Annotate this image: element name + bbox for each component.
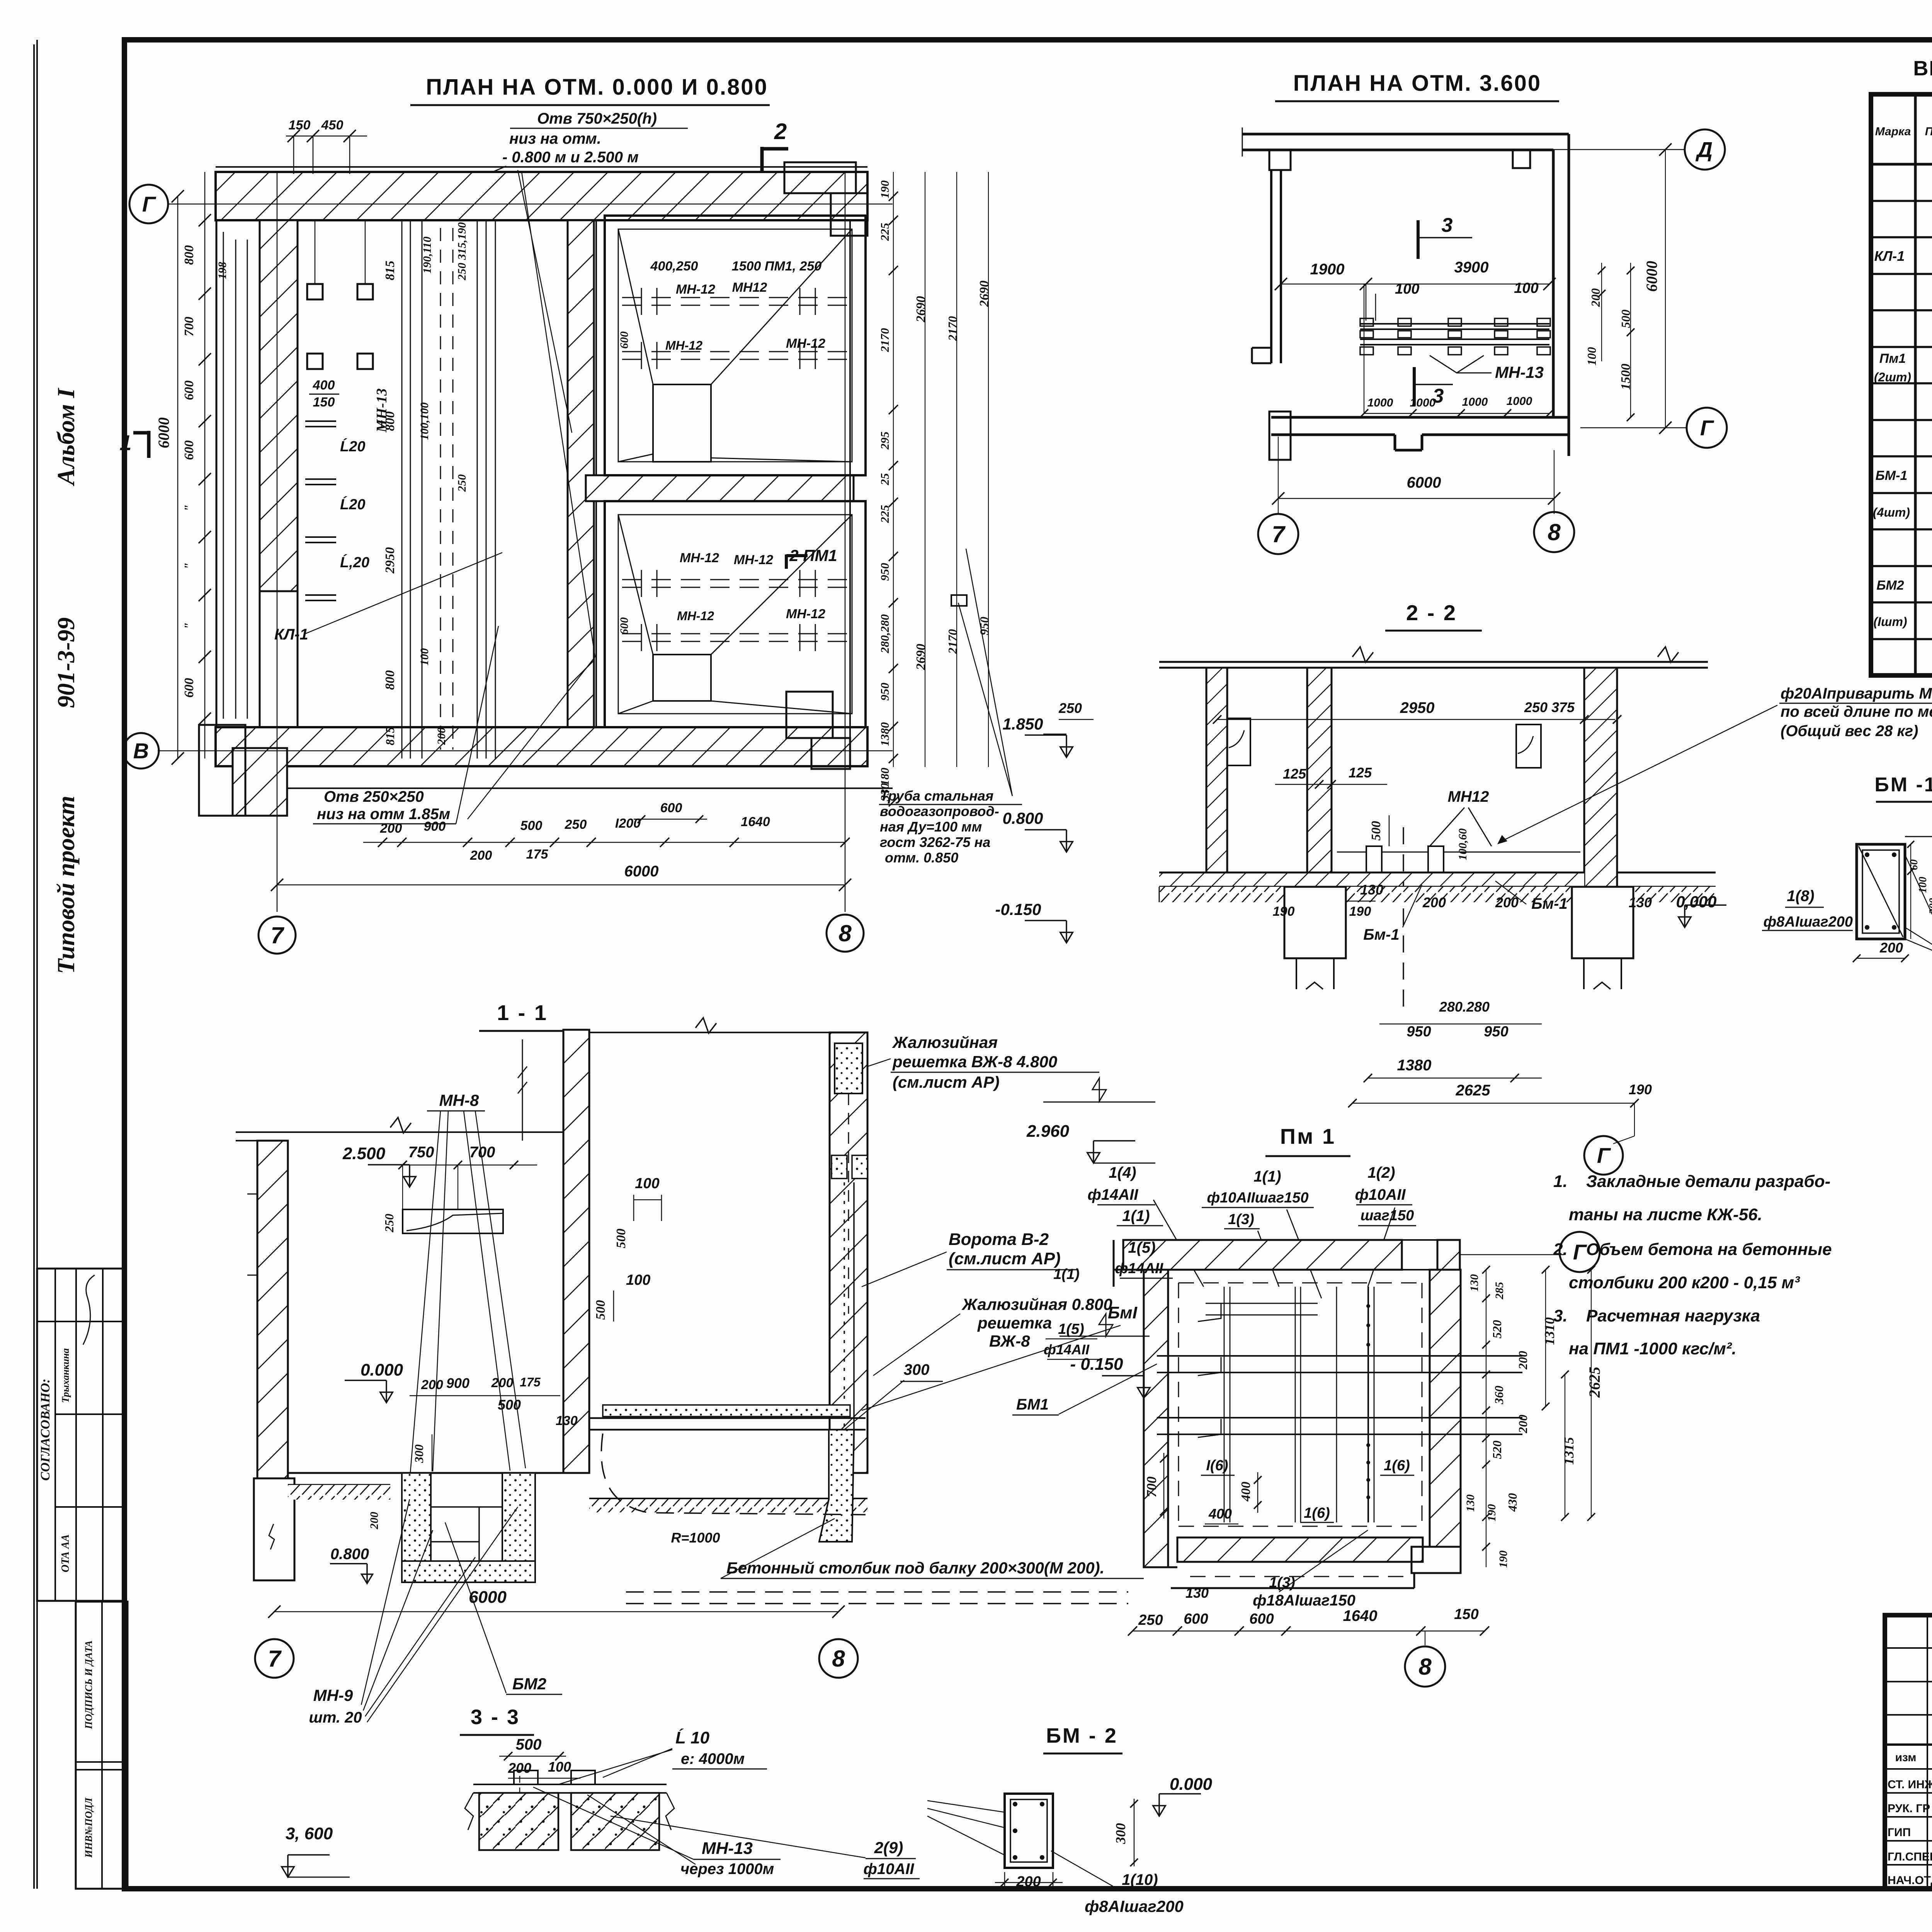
svg-text:2: 2 [774,119,787,144]
sidebar column lines [36,40,38,1889]
svg-text:3, 600: 3, 600 [286,1824,333,1843]
svg-text:ная Ду=100 мм: ная Ду=100 мм [880,819,982,835]
svg-text:е: 4000м: е: 4000м [681,1750,745,1767]
bottom wall [1271,416,1569,419]
svg-text:ф10АII: ф10АII [864,1861,915,1878]
2-2 floor slab [1159,872,1584,887]
svg-text:ф8АIшаг200: ф8АIшаг200 [1764,914,1853,930]
svg-text:(см.лист АР): (см.лист АР) [893,1073,1000,1091]
svg-text:МН-12: МН-12 [677,609,714,623]
svg-text:100: 100 [548,1759,571,1775]
svg-text:950: 950 [1484,1024,1508,1040]
svg-text:600: 600 [1249,1611,1274,1627]
svg-text:225: 225 [878,223,891,241]
svg-text:ГИП: ГИП [1888,1826,1911,1839]
svg-text:1(3): 1(3) [1269,1575,1295,1591]
svg-text:Отв 250×250: Отв 250×250 [324,788,424,805]
svg-text:500: 500 [614,1229,628,1248]
svg-text:водогазопровод-: водогазопровод- [880,803,999,819]
svg-text:низ на отм.: низ на отм. [509,130,601,147]
2-2 left wall [1206,668,1227,885]
svg-text:2625: 2625 [1456,1082,1491,1099]
svg-text:500: 500 [520,818,543,833]
svg-text:ПОДПИСЬ И ДАТА: ПОДПИСЬ И ДАТА [83,1640,94,1729]
svg-text:400: 400 [313,378,335,393]
svg-text:Ĺ20: Ĺ20 [340,496,365,513]
ground at right [589,1498,867,1512]
svg-text:Отв 750×250(h): Отв 750×250(h) [537,110,657,127]
svg-text:7: 7 [268,1646,282,1672]
1-1 right tall wall with louver [830,1032,867,1473]
svg-text:100,100: 100,100 [418,402,431,440]
sidebar soglasovano table [37,1269,124,1601]
svg-text:2690: 2690 [914,296,928,323]
svg-text:100: 100 [1514,280,1538,296]
svg-text:1000: 1000 [1462,396,1488,408]
plan walls [216,172,867,220]
svg-text:1(2): 1(2) [1367,1164,1395,1181]
1-1 floor slab left room [288,1472,563,1474]
svg-text:400: 400 [1208,1506,1232,1522]
svg-text:ПОЗ.: ПОЗ. [1925,125,1932,138]
svg-text:300: 300 [904,1361,930,1378]
svg-text:ГЛ.СПЕЦ: ГЛ.СПЕЦ [1888,1850,1932,1863]
svg-text:МН12: МН12 [1448,788,1489,805]
svg-text:": " [182,505,196,512]
svg-text:Типовой проект: Типовой проект [52,796,80,974]
svg-text:Объем бетона на бетонные: Объем бетона на бетонные [1586,1240,1832,1259]
svg-text:0,000: 0,000 [1676,893,1716,911]
svg-text:8: 8 [1548,519,1561,545]
svg-text:(Общий вес 28 кг): (Общий вес 28 кг) [1781,723,1918,740]
dims 3.600 [1281,284,1549,285]
svg-text:150: 150 [1454,1606,1478,1622]
top inner notch [1513,150,1530,168]
gate dashed line [844,1182,845,1449]
svg-text:200: 200 [1588,288,1602,307]
bottom dims [363,842,845,843]
KL-1 small steps [305,420,336,422]
svg-text:25: 25 [878,473,891,486]
2-2 ground hatch [1159,887,1284,902]
svg-text:190,110: 190,110 [421,236,434,274]
svg-text:950: 950 [878,683,891,701]
svg-text:ф18АIшаг150: ф18АIшаг150 [1253,1592,1355,1609]
svg-text:I200: I200 [615,816,641,831]
svg-text:изм: изм [1895,1751,1917,1764]
svg-text:520: 520 [1490,1440,1504,1459]
svg-text:250: 250 [565,817,587,832]
svg-text:400: 400 [1239,1482,1253,1502]
3-3 slabs [473,1784,667,1785]
svg-text:МН-12: МН-12 [680,551,719,565]
svg-text:6000: 6000 [1407,474,1441,491]
axis D [1542,149,1685,150]
svg-text:7: 7 [270,922,284,948]
svg-text:-0.150: -0.150 [995,900,1041,918]
svg-text:0.800: 0.800 [1002,809,1043,827]
2-2 axis G circle [1613,1136,1634,1144]
svg-text:- 0.150: - 0.150 [1070,1355,1124,1374]
svg-text:МН-8: МН-8 [439,1091,479,1109]
2-2 beams (BM-1) [1366,846,1382,872]
svg-text:295: 295 [878,432,891,450]
svg-text:2(9): 2(9) [874,1838,903,1857]
svg-text:200: 200 [435,728,448,745]
svg-text:": " [182,563,196,570]
svg-text:МН-12: МН-12 [665,338,702,352]
2-2 right wall [1584,668,1617,897]
svg-text:250 315,190: 250 315,190 [456,222,468,281]
svg-text:БМ1: БМ1 [1016,1396,1049,1413]
svg-text:1315: 1315 [1561,1437,1577,1465]
svg-text:1640: 1640 [741,815,770,829]
svg-text:750: 750 [408,1144,434,1161]
axis circle 8 [827,915,864,952]
svg-text:через 1000м: через 1000м [680,1861,774,1878]
svg-text:1(1): 1(1) [1053,1266,1080,1282]
svg-text:180: 180 [878,768,891,786]
svg-text:130: 130 [1464,1495,1477,1512]
svg-text:1: 1 [119,430,131,455]
svg-text:Марка: Марка [1875,125,1911,138]
svg-text:2690: 2690 [977,281,992,307]
svg-text:2950: 2950 [1400,699,1435,716]
svg-text:1(4): 1(4) [1109,1164,1136,1181]
plan 3.600 walls [1242,133,1569,136]
svg-text:2690: 2690 [914,644,928,670]
svg-text:Альбом I: Альбом I [52,388,80,486]
svg-text:200: 200 [1516,1351,1530,1370]
svg-text:2170: 2170 [946,316,959,341]
1-1 middle tall wall [563,1030,589,1473]
PM1 inner dashed perimeter [1179,1282,1422,1284]
svg-text:ИНВ№ПОДЛ: ИНВ№ПОДЛ [83,1797,94,1858]
dashed diagonal leader big [518,170,572,433]
svg-text:500: 500 [516,1736,542,1753]
svg-text:8: 8 [838,920,852,946]
dashed R=1000 curve [601,1434,866,1515]
svg-text:125: 125 [1283,766,1306,782]
lower tank [605,501,866,727]
svg-text:700: 700 [182,317,196,337]
svg-text:Ĺ 10: Ĺ 10 [675,1728,710,1747]
svg-text:1000: 1000 [1367,396,1393,409]
svg-text:600: 600 [182,440,196,460]
svg-text:1(5): 1(5) [1058,1321,1084,1337]
table1 grid [1871,94,1932,675]
svg-text:МН-13: МН-13 [1495,363,1544,381]
svg-text:Г: Г [1573,1240,1587,1264]
svg-text:БмI: БмI [1108,1303,1138,1322]
bottom-right blocks [786,692,833,738]
svg-text:1900: 1900 [1310,261,1345,278]
svg-text:3: 3 [1442,214,1453,236]
svg-text:1(6): 1(6) [1304,1505,1330,1521]
svg-text:1(10): 1(10) [1122,1871,1158,1888]
PM1 right dim chains [1486,1270,1486,1567]
svg-text:ВЖ-8: ВЖ-8 [989,1332,1030,1350]
svg-text:2950: 2950 [383,547,397,574]
svg-text:900: 900 [446,1375,469,1391]
svg-text:280,280: 280,280 [878,614,891,654]
svg-text:100: 100 [1585,347,1599,366]
svg-text:БМ -1: БМ -1 [1874,774,1932,796]
svg-text:РУК. ГР: РУК. ГР [1888,1802,1930,1815]
title block outer [1885,1615,1932,1889]
2-2 dashed anchor [1403,827,1404,1012]
concrete post right [819,1430,854,1542]
PM1 G circle and axis [1461,1254,1564,1255]
svg-text:отм. 0.850: отм. 0.850 [885,850,958,866]
svg-text:3900: 3900 [1454,259,1489,276]
svg-text:500: 500 [1369,821,1383,841]
3-3 channels on top [514,1770,538,1784]
svg-text:300: 300 [412,1444,426,1463]
svg-text:190: 190 [1273,904,1295,919]
title block verticals left part [1927,1615,1928,1889]
KL-1 squares [307,284,323,299]
svg-text:700: 700 [1144,1476,1159,1497]
svg-text:2170: 2170 [946,629,959,654]
svg-text:(4шт): (4шт) [1873,505,1910,519]
beams with plates [1360,323,1549,325]
svg-text:1310: 1310 [1542,1317,1557,1345]
svg-text:ф10АII: ф10АII [1355,1186,1406,1203]
svg-text:ф20АIприварить МН-12: ф20АIприварить МН-12 [1781,685,1932,702]
svg-text:шаг150: шаг150 [1361,1207,1414,1224]
svg-text:ф14АII: ф14АII [1115,1260,1164,1277]
left part horizontals [1885,1647,1932,1649]
svg-text:БМ2: БМ2 [512,1675,546,1693]
svg-text:по всей длине по месту: по всей длине по месту [1781,703,1932,720]
svg-text:0.000: 0.000 [1170,1775,1213,1794]
svg-text:190: 190 [1629,1082,1652,1097]
2-2 footings [1284,887,1346,958]
svg-text:Расчетная нагрузка: Расчетная нагрузка [1586,1306,1760,1325]
2-2 middle column [1307,668,1332,872]
svg-text:НАЧ.ОТД.: НАЧ.ОТД. [1888,1874,1932,1887]
svg-text:250 375: 250 375 [1524,699,1575,715]
svg-text:520: 520 [1490,1320,1504,1338]
svg-text:ф14АII: ф14АII [1088,1186,1139,1203]
svg-text:(Iшт): (Iшт) [1873,615,1907,629]
svg-text:(2шт): (2шт) [1874,370,1911,384]
svg-text:МН-13: МН-13 [702,1839,753,1858]
svg-text:Трыханкина: Трыханкина [60,1348,71,1403]
svg-text:1500 ПМ1, 250: 1500 ПМ1, 250 [732,259,821,274]
svg-text:225: 225 [878,505,891,524]
top-right wall protrusions [784,162,856,193]
svg-text:столбики 200 к200 - 0,15 м³: столбики 200 к200 - 0,15 м³ [1569,1273,1800,1292]
svg-text:130: 130 [1360,882,1383,898]
axis circle 7 [259,917,296,954]
2-2 top slab line [1159,667,1708,669]
svg-text:": " [182,622,196,630]
svg-text:800: 800 [383,412,397,431]
svg-text:815: 815 [383,727,397,745]
svg-text:Пм 1: Пм 1 [1280,1124,1336,1148]
svg-text:200: 200 [1495,895,1519,910]
svg-text:8: 8 [832,1646,845,1672]
svg-text:130: 130 [1629,895,1652,910]
PM1 circle 8 [1425,1631,1425,1645]
svg-text:1380: 1380 [878,722,891,746]
axis lines [168,204,893,205]
svg-text:R=1000: R=1000 [671,1530,720,1546]
svg-text:I(6): I(6) [1206,1458,1228,1474]
svg-text:Труба стальная: Труба стальная [880,788,993,804]
svg-text:200: 200 [470,848,492,863]
svg-text:200: 200 [508,1760,531,1776]
svg-text:250: 250 [382,1214,396,1233]
axis G right [1580,427,1687,429]
svg-text:190: 190 [1485,1504,1498,1522]
svg-text:6000: 6000 [155,417,172,448]
svg-text:7: 7 [1272,521,1286,547]
svg-text:МН-9: МН-9 [313,1686,353,1704]
sidebar bottom table (podpis/inv) [76,1602,128,1889]
svg-text:ПЛАН НА ОТМ. 3.600: ПЛАН НА ОТМ. 3.600 [1293,71,1541,96]
left corridor lines [216,220,218,727]
svg-text:8: 8 [1418,1654,1432,1680]
svg-text:130: 130 [556,1413,578,1428]
page edge line [33,44,35,1889]
svg-text:200: 200 [368,1512,381,1530]
svg-text:250: 250 [1138,1612,1163,1628]
left dim chain [204,172,206,759]
section mark 1 left [147,431,151,458]
svg-text:200: 200 [1422,895,1446,910]
svg-text:500: 500 [594,1300,608,1320]
svg-text:125: 125 [1349,765,1372,781]
svg-text:200: 200 [1016,1874,1041,1890]
svg-text:на ПМ1 -1000 кгс/м².: на ПМ1 -1000 кгс/м². [1569,1339,1736,1358]
svg-text:800: 800 [182,245,196,265]
svg-text:- 0.800 м и 2.500 м: - 0.800 м и 2.500 м [502,149,639,166]
svg-text:450: 450 [321,118,344,133]
bottom 6000 [1278,498,1554,499]
svg-text:Г: Г [142,192,156,216]
svg-text:шт. 20: шт. 20 [309,1709,362,1726]
1-1 left wall [257,1141,288,1478]
svg-text:175: 175 [520,1375,541,1389]
svg-text:Бм-1: Бм-1 [1363,926,1399,943]
svg-text:1.850: 1.850 [1002,715,1043,733]
svg-text:1(8): 1(8) [1787,888,1814,905]
svg-text:СТ. ИНЖ: СТ. ИНЖ [1888,1778,1932,1791]
interior vertical lines [401,220,403,759]
breaks [1242,128,1243,156]
svg-text:198: 198 [216,262,229,279]
svg-text:600: 600 [618,617,631,635]
axis circles 7 8 [1258,514,1298,554]
svg-text:(см.лист АР): (см.лист АР) [949,1249,1061,1268]
svg-text:130: 130 [1185,1585,1209,1601]
svg-text:ОТА АА: ОТА АА [60,1534,71,1573]
svg-text:Д: Д [1696,138,1713,162]
svg-text:250: 250 [1058,700,1082,716]
svg-text:430: 430 [1505,1493,1519,1512]
PM1 bottom-right step [1412,1547,1461,1573]
svg-text:2 - 2: 2 - 2 [1406,600,1457,625]
svg-text:1(6): 1(6) [1384,1458,1410,1474]
svg-text:Жалюзийная: Жалюзийная [892,1033,998,1051]
svg-text:6000: 6000 [624,863,659,880]
svg-text:1000: 1000 [1410,396,1436,409]
svg-text:Пм1: Пм1 [1879,351,1906,366]
svg-text:КЛ-1: КЛ-1 [1874,248,1905,264]
svg-text:285: 285 [1493,1282,1506,1300]
1-1 top break lines [522,1039,523,1141]
svg-text:Ĺ20: Ĺ20 [340,438,365,455]
svg-text:3 - 3: 3 - 3 [471,1706,520,1729]
svg-text:БМ2: БМ2 [1876,578,1904,593]
2-2 small wall corbels [1227,718,1250,765]
svg-text:решетка ВЖ-8 4.800: решетка ВЖ-8 4.800 [892,1053,1057,1071]
svg-text:200: 200 [421,1378,443,1392]
svg-text:300: 300 [1113,1823,1128,1844]
svg-text:СОГЛАСОВАНО:: СОГЛАСОВАНО: [38,1379,53,1481]
svg-text:200: 200 [1516,1415,1530,1434]
upper tank [605,216,866,475]
svg-text:190: 190 [878,180,891,199]
1-1 central pit [402,1473,431,1574]
svg-text:Жалюзийная 0.800: Жалюзийная 0.800 [961,1295,1112,1313]
right dim chains [893,172,894,767]
svg-text:решетка: решетка [977,1314,1052,1332]
svg-text:100: 100 [1395,281,1419,297]
1-1 bottom axis dim [274,1611,838,1612]
svg-text:950: 950 [1406,1024,1431,1040]
svg-text:100,60: 100,60 [1456,828,1469,861]
section 3 marks [1417,220,1420,259]
svg-text:800: 800 [383,670,397,690]
PM1 walls [1123,1240,1402,1270]
svg-text:600: 600 [182,678,196,698]
svg-text:Ворота В-2: Ворота В-2 [949,1230,1049,1249]
svg-text:100: 100 [418,648,431,666]
svg-text:1 - 1: 1 - 1 [497,1000,548,1025]
svg-text:100: 100 [635,1175,659,1192]
svg-text:600: 600 [660,801,682,815]
svg-text:2.960: 2.960 [1026,1122,1070,1141]
1-1 right room floor/beam [603,1405,850,1417]
BM-2 section [1005,1794,1053,1868]
svg-text:таны на листе КЖ-56.: таны на листе КЖ-56. [1569,1205,1762,1224]
axis circle G [129,185,168,223]
svg-text:ПЛАН НА ОТМ. 0.000 И 0.800: ПЛАН НА ОТМ. 0.000 И 0.800 [426,75,768,100]
svg-text:100: 100 [626,1272,650,1288]
svg-text:6000: 6000 [1643,261,1660,292]
svg-text:1640: 1640 [1343,1607,1378,1624]
svg-text:МН-12: МН-12 [734,553,773,567]
svg-text:2170: 2170 [878,328,891,352]
svg-text:200: 200 [1879,940,1903,956]
svg-text:КЛ-1: КЛ-1 [274,626,308,643]
svg-text:280.280: 280.280 [1439,999,1490,1015]
svg-text:Ĺ,20: Ĺ,20 [340,554,369,571]
svg-text:600: 600 [618,332,631,349]
svg-text:600: 600 [182,381,196,400]
svg-text:1(5): 1(5) [1128,1239,1155,1256]
svg-text:1(1): 1(1) [1122,1207,1150,1225]
svg-text:1.: 1. [1553,1172,1568,1191]
svg-text:гост 3262-75 на: гост 3262-75 на [880,834,990,850]
svg-text:600: 600 [1184,1611,1208,1627]
svg-text:1(1): 1(1) [1253,1168,1281,1185]
PM1 beams crossing [1157,1355,1522,1357]
